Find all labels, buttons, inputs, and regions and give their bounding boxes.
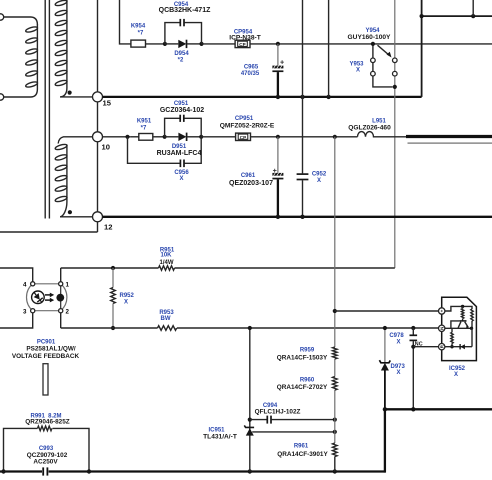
wire CP951 onward bbox=[251, 136, 358, 138]
secondary output wire (terminal 10 row) bbox=[103, 136, 131, 138]
pin column vertical wire bbox=[97, 0, 99, 232]
svg-text:X: X bbox=[454, 372, 458, 378]
junction D954 cathode bbox=[199, 42, 203, 46]
top right corner wires bbox=[421, 0, 423, 97]
resistor R951 bbox=[159, 248, 175, 271]
svg-text:CP951: CP951 bbox=[235, 116, 254, 122]
junction K954-D954 anode bbox=[163, 42, 167, 46]
svg-text:X: X bbox=[179, 176, 183, 182]
junction K951 input / C956 bbox=[125, 135, 129, 139]
isolation barrier mark bbox=[43, 364, 48, 395]
svg-text:Y953: Y953 bbox=[349, 61, 364, 67]
shunt regulator IC951 TL431 bbox=[203, 425, 335, 440]
circuit protector CP954 bbox=[229, 29, 261, 47]
svg-text:BW: BW bbox=[161, 316, 171, 322]
long vertical wire (right) bbox=[394, 0, 396, 268]
resistor R960 bbox=[277, 377, 337, 391]
svg-text:QFLC1HJ-102Z: QFLC1HJ-102Z bbox=[255, 408, 301, 415]
svg-text:QMFZ052-2R0Z-E: QMFZ052-2R0Z-E bbox=[220, 122, 275, 129]
resistor R953 bbox=[158, 310, 177, 331]
feedback row 1 wire bbox=[61, 267, 159, 269]
svg-text:3: 3 bbox=[23, 308, 27, 315]
junction D951 cathode bbox=[199, 135, 203, 139]
svg-text:X: X bbox=[124, 299, 128, 305]
junction R953 row to IC951 bbox=[248, 326, 252, 330]
svg-text:QGLZ026-460: QGLZ026-460 bbox=[348, 125, 391, 132]
svg-text:4: 4 bbox=[23, 282, 27, 289]
svg-text:ICP-N38-T: ICP-N38-T bbox=[229, 34, 261, 41]
svg-text:GCZ0364-102: GCZ0364-102 bbox=[160, 107, 204, 114]
svg-text:*2: *2 bbox=[178, 58, 184, 64]
svg-text:R952: R952 bbox=[120, 293, 135, 299]
fuse K954 bbox=[131, 24, 146, 48]
wire C978 to IC952 pin R bbox=[413, 346, 441, 348]
transformer secondary winding B (pins 10-12) bbox=[55, 137, 93, 217]
junction right stub bbox=[471, 14, 475, 18]
capacitor C965 electrolytic bbox=[241, 44, 284, 97]
svg-text:QRA14CF-2702Y: QRA14CF-2702Y bbox=[277, 384, 328, 391]
svg-text:CP: CP bbox=[239, 42, 245, 47]
diode D954 bbox=[165, 40, 202, 64]
svg-text:QCB32HK-471Z: QCB32HK-471Z bbox=[159, 7, 211, 14]
junction D973 at feedback row bbox=[383, 326, 387, 330]
resistor R961 bbox=[277, 443, 337, 458]
svg-text:10K: 10K bbox=[160, 253, 172, 259]
svg-text:C965: C965 bbox=[244, 65, 259, 71]
capacitor C994 bbox=[250, 403, 335, 424]
svg-text:C952: C952 bbox=[312, 172, 327, 178]
gray parallel line bbox=[408, 142, 492, 144]
svg-text:C956: C956 bbox=[174, 170, 189, 176]
svg-text:QRA14CF-1503Y: QRA14CF-1503Y bbox=[277, 354, 328, 361]
svg-text:X: X bbox=[317, 178, 321, 184]
diode D951 bbox=[157, 133, 202, 157]
junction R961 at bus bbox=[333, 469, 337, 473]
svg-text:N: N bbox=[440, 327, 445, 330]
junction vertical-2 at bus bbox=[326, 95, 330, 99]
svg-text:+: + bbox=[280, 57, 284, 66]
wire to IC952 pin 1 bbox=[335, 310, 442, 312]
svg-text:R959: R959 bbox=[300, 348, 315, 354]
terminal 12 bbox=[93, 212, 103, 222]
svg-text:K954: K954 bbox=[131, 24, 146, 30]
svg-text:AC250V: AC250V bbox=[33, 458, 58, 465]
svg-text:X: X bbox=[396, 340, 400, 346]
svg-text:1/4W: 1/4W bbox=[159, 260, 173, 266]
svg-text:QRZ9046-825Z: QRZ9046-825Z bbox=[25, 419, 69, 426]
junction divider chain top bbox=[333, 135, 337, 139]
junction divider to IC952 pin1 bbox=[333, 309, 337, 313]
junction C965 top bbox=[276, 42, 280, 46]
transformer primary winding (left) bbox=[0, 14, 38, 100]
svg-text:TL431/A/-T: TL431/A/-T bbox=[203, 434, 237, 441]
transformer T core bbox=[45, 0, 49, 219]
wire to CP951 bbox=[201, 136, 235, 138]
fuse K951 bbox=[131, 119, 153, 141]
terminal 10 bbox=[93, 132, 103, 142]
divider chain vertical bbox=[334, 137, 336, 347]
vertical wire 2 from top bbox=[328, 0, 330, 97]
svg-text:*7: *7 bbox=[138, 31, 144, 37]
capacitor C961 electrolytic bbox=[229, 137, 283, 217]
svg-text:R953: R953 bbox=[159, 310, 174, 316]
svg-text:GUY160-100Y: GUY160-100Y bbox=[348, 34, 391, 41]
junction C961 top bbox=[276, 135, 280, 139]
resistor R952 bbox=[111, 268, 135, 328]
wire K954 to D954 bbox=[146, 43, 165, 45]
svg-text:QEZ0203-107: QEZ0203-107 bbox=[229, 180, 273, 187]
circuit protector CP951 bbox=[220, 116, 275, 141]
heavy output line bbox=[406, 135, 492, 138]
svg-text:C978: C978 bbox=[389, 333, 404, 339]
IC952 detector bbox=[439, 297, 477, 378]
svg-text:R961: R961 bbox=[294, 443, 309, 449]
junction D973 at output return bbox=[383, 407, 387, 411]
svg-text:D954: D954 bbox=[174, 51, 189, 57]
svg-text:*7: *7 bbox=[141, 126, 147, 132]
junction C952 top at bus bbox=[300, 95, 304, 99]
resistor R991 loop with C993 bbox=[4, 413, 90, 471]
top feed wire to K954 bbox=[120, 0, 131, 44]
IC951 branch vertical bbox=[249, 328, 251, 472]
junction R991-C993 right bbox=[87, 469, 91, 473]
svg-text:K951: K951 bbox=[137, 119, 152, 125]
capacitor C993 bbox=[27, 446, 68, 476]
junction TL431 ref at divider bbox=[333, 430, 337, 434]
capacitor C956 (parallel bottom) bbox=[128, 137, 202, 182]
junction C994 at divider bbox=[333, 418, 337, 422]
jumper Y953 (left, not fitted) bbox=[349, 44, 392, 87]
svg-text:470/35: 470/35 bbox=[241, 71, 260, 77]
svg-text:PS2581AL1/QW/: PS2581AL1/QW/ bbox=[26, 346, 76, 353]
svg-text:+: + bbox=[440, 309, 445, 312]
resistor R959 bbox=[277, 347, 337, 361]
svg-text:C961: C961 bbox=[241, 173, 256, 179]
capacitor C954 (parallel with D954) bbox=[159, 2, 211, 44]
svg-text:RU3AM-LFC4: RU3AM-LFC4 bbox=[157, 150, 202, 157]
svg-text:VOLTAGE FEEDBACK: VOLTAGE FEEDBACK bbox=[12, 353, 80, 360]
stub up bbox=[472, 0, 474, 16]
zener D973 branch bbox=[379, 328, 405, 409]
svg-text:15: 15 bbox=[103, 99, 112, 108]
corner from long vertical bbox=[394, 267, 396, 269]
capacitor C978 branch bbox=[389, 326, 422, 409]
svg-text:X: X bbox=[356, 68, 360, 74]
junction bottom bus left bbox=[1, 469, 5, 473]
junction C952 at return bus bbox=[300, 215, 304, 219]
junction Y953 top bbox=[371, 42, 375, 46]
svg-text:CP: CP bbox=[240, 135, 246, 140]
junction C961 at return bus bbox=[276, 215, 280, 219]
bottom bus bbox=[0, 470, 385, 472]
junction C965 at bus bbox=[276, 95, 280, 99]
terminal 15 bbox=[93, 92, 103, 102]
junction C994 left bbox=[248, 418, 252, 422]
wire to D951 bbox=[153, 136, 165, 138]
capacitor C951 (parallel top) bbox=[160, 101, 204, 137]
jumper Y954 (fitted, on vertical wire) bbox=[348, 28, 398, 89]
svg-text:QRA14CF-3901Y: QRA14CF-3901Y bbox=[277, 451, 328, 458]
svg-text:10: 10 bbox=[102, 143, 110, 152]
junction C978 branch at output return bbox=[411, 407, 415, 411]
junction R952 top bbox=[111, 266, 115, 270]
bus wire from terminal 15 bbox=[103, 96, 422, 98]
junction top-right corner bbox=[420, 14, 424, 18]
optocoupler PC901 bbox=[0, 268, 79, 360]
svg-text:1: 1 bbox=[66, 282, 70, 289]
svg-text:IC952: IC952 bbox=[449, 366, 466, 372]
wire y16 bbox=[422, 15, 492, 17]
transformer secondary winding A (to pin 15) bbox=[55, 0, 93, 97]
wire D954 to CP954 bbox=[202, 43, 236, 45]
bottom secondary bus (terminal 12 row) bbox=[103, 216, 492, 218]
svg-text:IC951: IC951 bbox=[208, 427, 225, 433]
junction R952 bottom bbox=[111, 326, 115, 330]
svg-text:2: 2 bbox=[66, 308, 70, 315]
capacitor C952 bbox=[297, 97, 327, 217]
svg-text:R960: R960 bbox=[300, 377, 315, 383]
junction D951 anode / C951 bbox=[163, 135, 167, 139]
wire CP954 to right edge bbox=[250, 43, 492, 45]
svg-text:X: X bbox=[397, 370, 401, 376]
svg-text:12: 12 bbox=[104, 223, 112, 232]
vertical wire 1 from top bbox=[302, 0, 304, 97]
wire from pin 12 to left edge bbox=[0, 231, 98, 233]
junction IC951 anode at bus bbox=[248, 469, 252, 473]
feedback row 2 wire bbox=[61, 327, 158, 329]
output return thick wires bbox=[385, 408, 492, 410]
inductor L951 bbox=[348, 119, 406, 137]
